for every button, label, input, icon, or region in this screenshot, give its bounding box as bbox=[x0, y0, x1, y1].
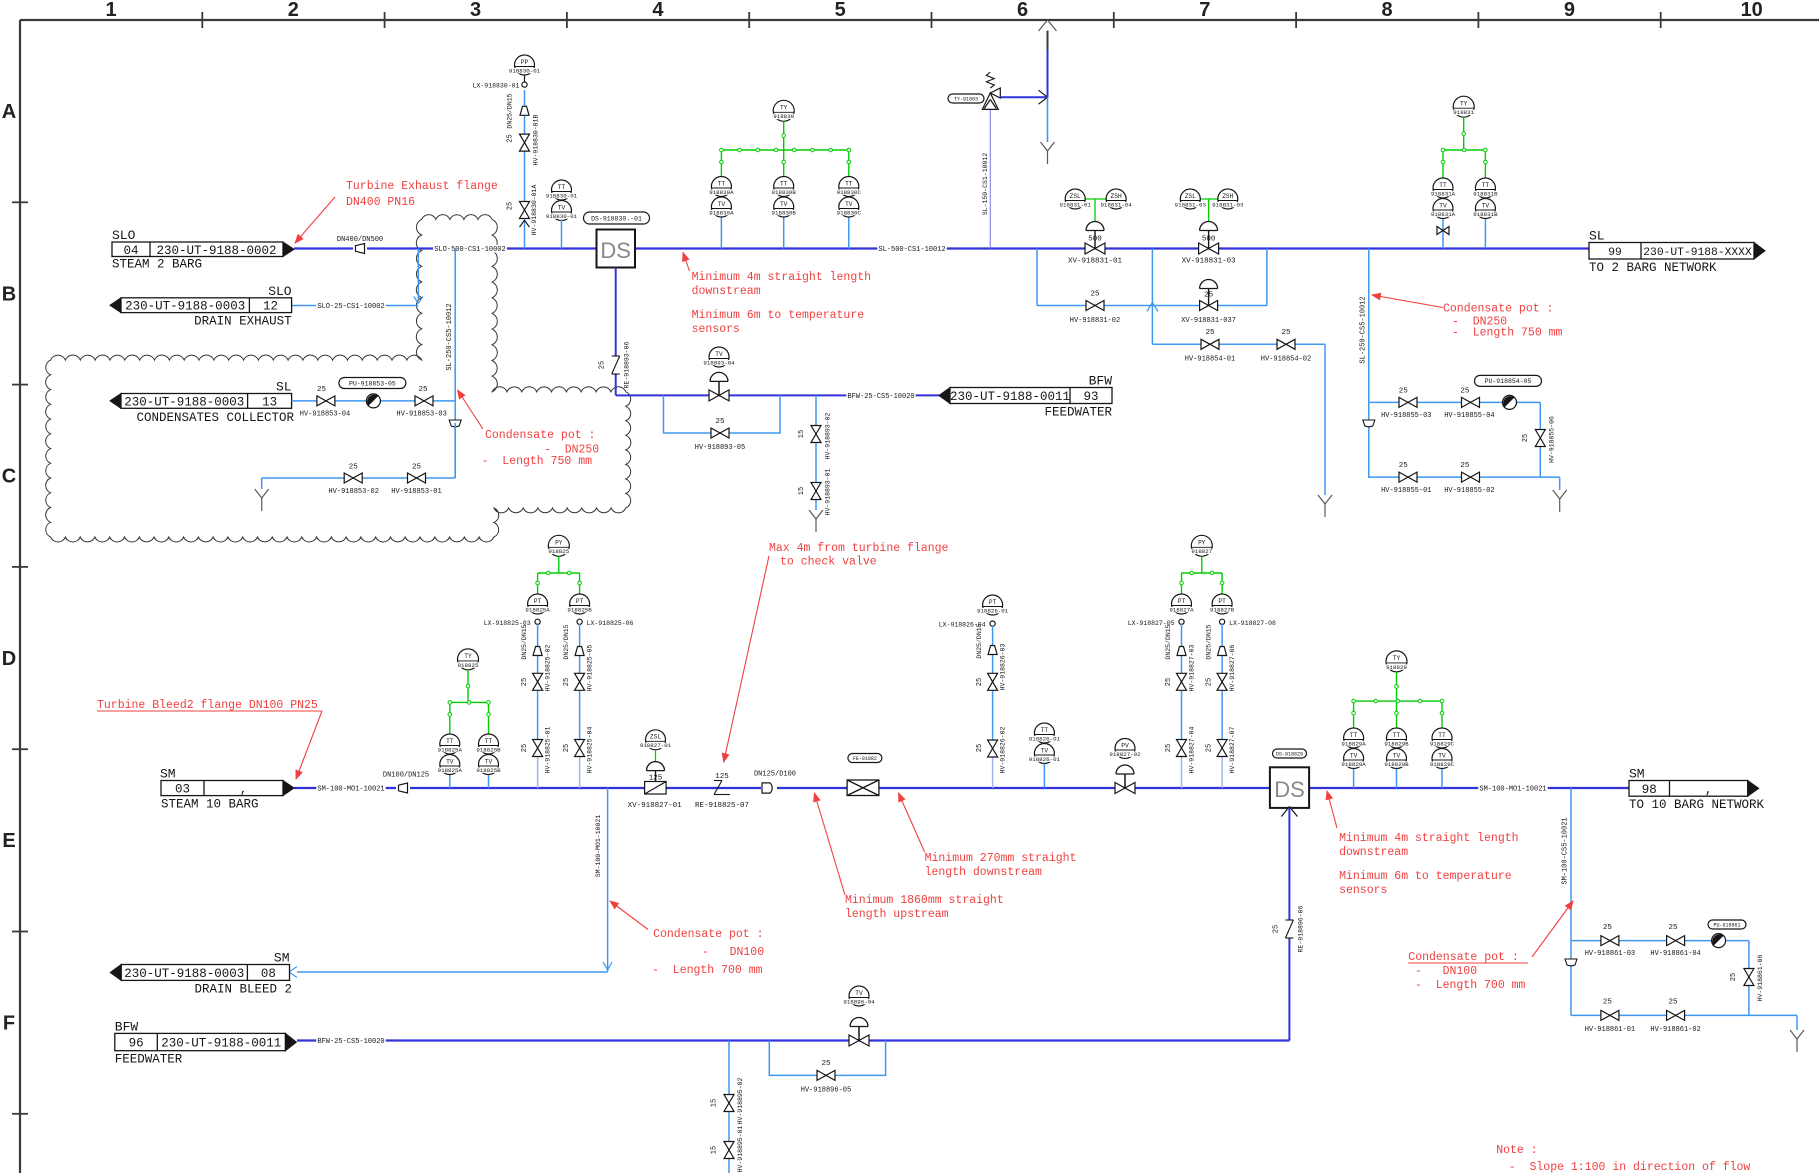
svg-text:918829C: 918829C bbox=[1430, 740, 1455, 747]
svg-text:918825A: 918825A bbox=[438, 767, 463, 774]
svg-text:918825A: 918825A bbox=[525, 606, 550, 613]
svg-text:918830C: 918830C bbox=[837, 189, 862, 196]
svg-text:TV: TV bbox=[1482, 202, 1490, 209]
svg-text:TY-91883: TY-91883 bbox=[954, 96, 978, 102]
svg-text:HV-918826-03: HV-918826-03 bbox=[1000, 643, 1007, 690]
svg-text:Minimum 4m straight length: Minimum 4m straight length bbox=[692, 271, 871, 284]
svg-text:length upstream: length upstream bbox=[845, 908, 949, 921]
svg-text:TV: TV bbox=[1350, 752, 1358, 759]
svg-text:9: 9 bbox=[1564, 0, 1575, 21]
svg-text:98: 98 bbox=[1642, 783, 1657, 797]
svg-text:SM: SM bbox=[1629, 767, 1645, 782]
svg-text:918831A: 918831A bbox=[1431, 211, 1456, 218]
svg-text:PY: PY bbox=[1198, 540, 1206, 547]
svg-text:TV: TV bbox=[1439, 202, 1447, 209]
svg-text:TT: TT bbox=[1438, 732, 1446, 739]
svg-text:sensors: sensors bbox=[1339, 884, 1387, 897]
svg-text:918829C: 918829C bbox=[1430, 761, 1455, 768]
svg-text:TO 2 BARG NETWORK: TO 2 BARG NETWORK bbox=[1589, 261, 1717, 275]
svg-text:25: 25 bbox=[1165, 678, 1173, 686]
svg-text:HV-918896-05: HV-918896-05 bbox=[801, 1086, 851, 1094]
svg-text:TV: TV bbox=[485, 758, 493, 765]
svg-text:TO 10 BARG NETWORK: TO 10 BARG NETWORK bbox=[1629, 798, 1765, 812]
svg-text:TY: TY bbox=[780, 105, 788, 112]
svg-text:TT: TT bbox=[558, 184, 566, 191]
svg-text:downstream: downstream bbox=[692, 285, 761, 298]
svg-text:FE-91882: FE-91882 bbox=[853, 756, 877, 762]
svg-text:918830-01: 918830-01 bbox=[546, 192, 578, 199]
svg-text:25: 25 bbox=[1522, 434, 1530, 442]
svg-text:BFW-25-CS5-10020: BFW-25-CS5-10020 bbox=[317, 1038, 384, 1046]
svg-text:230-UT-9188-0011: 230-UT-9188-0011 bbox=[161, 1037, 281, 1051]
svg-text:Condensate pot :: Condensate pot : bbox=[653, 928, 763, 941]
svg-text:25: 25 bbox=[1206, 678, 1214, 686]
svg-text:BFW: BFW bbox=[1089, 374, 1113, 389]
svg-text:HV-918853-02: HV-918853-02 bbox=[328, 488, 378, 496]
svg-text:DN25/DN15: DN25/DN15 bbox=[563, 624, 570, 659]
svg-text:TT: TT bbox=[1393, 732, 1401, 739]
svg-text:Minimum 6m to temperature: Minimum 6m to temperature bbox=[1339, 870, 1512, 883]
svg-text:25: 25 bbox=[1206, 744, 1214, 752]
svg-text:25: 25 bbox=[317, 386, 327, 394]
svg-text:HV-918855-04: HV-918855-04 bbox=[1444, 412, 1494, 420]
svg-text:B: B bbox=[2, 283, 16, 305]
svg-text:- Length 750 mm: - Length 750 mm bbox=[1452, 327, 1563, 340]
svg-text:230-UT-9188-0002: 230-UT-9188-0002 bbox=[156, 244, 276, 258]
svg-text:Minimum 270mm straight: Minimum 270mm straight bbox=[925, 852, 1077, 865]
svg-text:PT: PT bbox=[576, 598, 584, 605]
svg-text:DS: DS bbox=[600, 238, 631, 263]
svg-text:DRAIN EXHAUST: DRAIN EXHAUST bbox=[194, 314, 292, 328]
svg-text:918825B: 918825B bbox=[476, 767, 501, 774]
svg-text:HV-918893-05: HV-918893-05 bbox=[695, 444, 745, 452]
svg-text:HV-918830-01A: HV-918830-01A bbox=[531, 185, 538, 236]
svg-text:HV-918853-03: HV-918853-03 bbox=[396, 410, 446, 418]
svg-text:25: 25 bbox=[1460, 387, 1470, 395]
svg-text:HV-918830-01B: HV-918830-01B bbox=[533, 115, 540, 166]
svg-text:LX-918827-08: LX-918827-08 bbox=[1229, 620, 1276, 627]
svg-text:SL: SL bbox=[1589, 229, 1605, 244]
svg-text:93: 93 bbox=[1083, 390, 1098, 404]
svg-text:HV-918827-07: HV-918827-07 bbox=[1229, 726, 1236, 773]
svg-text:DS-918829: DS-918829 bbox=[1276, 751, 1303, 757]
svg-text:SL-250-CS5-10012: SL-250-CS5-10012 bbox=[446, 303, 454, 370]
svg-text:918827B: 918827B bbox=[1210, 606, 1235, 613]
svg-text:to check valve: to check valve bbox=[780, 556, 877, 569]
svg-text:25: 25 bbox=[1281, 329, 1291, 337]
svg-text:500: 500 bbox=[1088, 236, 1102, 244]
svg-text:TT: TT bbox=[1350, 732, 1358, 739]
svg-text:ZSH: ZSH bbox=[1222, 193, 1233, 200]
svg-text:918827A: 918827A bbox=[1169, 606, 1194, 613]
svg-text:XV-918831-03: XV-918831-03 bbox=[1182, 258, 1237, 266]
svg-text:918830-01: 918830-01 bbox=[509, 67, 541, 74]
svg-text:HV-918854-01: HV-918854-01 bbox=[1185, 356, 1235, 364]
svg-text:F: F bbox=[3, 1013, 15, 1035]
svg-text:- Slope 1:100 in direction of: - Slope 1:100 in direction of flow bbox=[1509, 1161, 1751, 1173]
svg-text:TV: TV bbox=[1041, 747, 1049, 754]
svg-text:SM: SM bbox=[160, 767, 176, 782]
svg-text:Minimum 1860mm straight: Minimum 1860mm straight bbox=[845, 894, 1004, 907]
svg-text:DN125/D100: DN125/D100 bbox=[754, 770, 796, 778]
svg-text:HV-918855-01: HV-918855-01 bbox=[1381, 487, 1431, 495]
svg-text:918830B: 918830B bbox=[772, 209, 797, 216]
svg-text:D: D bbox=[2, 648, 16, 670]
svg-text:,: , bbox=[1705, 783, 1713, 797]
svg-text:DN25/DN15: DN25/DN15 bbox=[1206, 624, 1213, 659]
svg-text:6: 6 bbox=[1017, 0, 1028, 21]
svg-text:STEAM 2 BARG: STEAM 2 BARG bbox=[112, 258, 202, 272]
svg-text:3: 3 bbox=[470, 0, 481, 21]
svg-text:25: 25 bbox=[1730, 973, 1738, 981]
svg-text:25: 25 bbox=[1460, 462, 1470, 470]
svg-text:PT: PT bbox=[1218, 598, 1226, 605]
svg-text:HV-918855-06: HV-918855-06 bbox=[1549, 416, 1556, 463]
svg-text:25: 25 bbox=[715, 418, 725, 426]
svg-text:Minimum 4m straight length: Minimum 4m straight length bbox=[1339, 832, 1518, 845]
svg-text:- DN100: - DN100 bbox=[1415, 965, 1477, 978]
svg-text:PP: PP bbox=[521, 59, 529, 66]
svg-text:SM: SM bbox=[274, 951, 290, 966]
svg-text:25: 25 bbox=[521, 678, 529, 686]
svg-text:25: 25 bbox=[1165, 744, 1173, 752]
svg-text:sensors: sensors bbox=[692, 323, 740, 336]
svg-text:RE-918893-06: RE-918893-06 bbox=[624, 341, 631, 388]
svg-text:LX-918830-01: LX-918830-01 bbox=[473, 83, 520, 90]
svg-text:XV-918831-01: XV-918831-01 bbox=[1068, 258, 1123, 266]
svg-text:HV-918893-02: HV-918893-02 bbox=[825, 412, 832, 459]
svg-text:TY: TY bbox=[464, 653, 472, 660]
svg-text:918829B: 918829B bbox=[1384, 740, 1409, 747]
svg-text:SM-100-MO1-10021: SM-100-MO1-10021 bbox=[317, 786, 384, 794]
svg-text:TV: TV bbox=[780, 201, 788, 208]
svg-text:230-UT-9188-XXXX: 230-UT-9188-XXXX bbox=[1643, 247, 1752, 259]
svg-text:PY: PY bbox=[555, 540, 563, 547]
svg-text:125: 125 bbox=[715, 773, 729, 781]
svg-text:PV: PV bbox=[1121, 742, 1129, 749]
svg-text:25: 25 bbox=[521, 744, 529, 752]
svg-text:918831B: 918831B bbox=[1473, 211, 1498, 218]
svg-text:HV-918861-01: HV-918861-01 bbox=[1585, 1026, 1635, 1034]
svg-text:TT: TT bbox=[485, 738, 493, 745]
svg-text:TV: TV bbox=[715, 351, 723, 358]
svg-text:25: 25 bbox=[1603, 999, 1613, 1007]
svg-text:DN100/DN125: DN100/DN125 bbox=[383, 772, 429, 780]
svg-text:25: 25 bbox=[563, 678, 571, 686]
svg-text:918829: 918829 bbox=[1386, 664, 1407, 671]
svg-text:TY: TY bbox=[1393, 655, 1401, 662]
svg-text:918831-04: 918831-04 bbox=[1100, 201, 1132, 208]
svg-text:DN25/DN15: DN25/DN15 bbox=[507, 93, 514, 128]
svg-text:918831B: 918831B bbox=[1473, 190, 1498, 197]
svg-text:918827-02: 918827-02 bbox=[1109, 751, 1141, 758]
svg-text:DN25/DN15: DN25/DN15 bbox=[1165, 624, 1172, 659]
svg-text:TT: TT bbox=[780, 180, 788, 187]
svg-text:HV-918825-05: HV-918825-05 bbox=[587, 644, 594, 691]
svg-text:25: 25 bbox=[1603, 924, 1613, 932]
svg-text:XV-918827-01: XV-918827-01 bbox=[628, 802, 683, 810]
svg-text:918830A: 918830A bbox=[709, 189, 734, 196]
svg-text:918896-04: 918896-04 bbox=[843, 998, 875, 1005]
svg-text:25: 25 bbox=[976, 678, 984, 686]
svg-text:PT: PT bbox=[1178, 598, 1186, 605]
svg-text:DN400 PN16: DN400 PN16 bbox=[346, 196, 415, 209]
svg-text:10: 10 bbox=[1741, 0, 1763, 21]
svg-text:25: 25 bbox=[412, 464, 422, 472]
svg-text:918826-01: 918826-01 bbox=[977, 607, 1009, 614]
svg-text:15: 15 bbox=[798, 430, 806, 438]
svg-text:03: 03 bbox=[175, 783, 190, 797]
svg-text:PU-918853-05: PU-918853-05 bbox=[349, 380, 396, 387]
svg-text:HV-918825-01: HV-918825-01 bbox=[545, 726, 552, 773]
svg-text:PU-918854-05: PU-918854-05 bbox=[1485, 378, 1532, 385]
svg-text:SL-150-CS1-10012: SL-150-CS1-10012 bbox=[982, 153, 989, 216]
svg-text:SL: SL bbox=[276, 380, 292, 395]
svg-text:15: 15 bbox=[798, 487, 806, 495]
svg-text:BFW-25-CS5-10020: BFW-25-CS5-10020 bbox=[847, 393, 914, 401]
svg-text:HV-918826-02: HV-918826-02 bbox=[1000, 726, 1007, 773]
svg-text:Turbine Bleed2 flange DN100 PN: Turbine Bleed2 flange DN100 PN25 bbox=[97, 699, 318, 712]
svg-text:DS: DS bbox=[1274, 777, 1305, 802]
svg-text:STEAM 10 BARG: STEAM 10 BARG bbox=[161, 798, 259, 812]
svg-text:HV-918827-06: HV-918827-06 bbox=[1229, 644, 1236, 691]
svg-text:SLO-500-CS1-10002: SLO-500-CS1-10002 bbox=[434, 246, 505, 254]
svg-text:SM-100-MO1-10021: SM-100-MO1-10021 bbox=[595, 815, 602, 878]
svg-text:TT: TT bbox=[718, 180, 726, 187]
svg-text:8: 8 bbox=[1382, 0, 1393, 21]
svg-text:25: 25 bbox=[1205, 329, 1215, 337]
svg-text:- DN100: - DN100 bbox=[702, 946, 764, 959]
svg-text:Minimum 6m to temperature: Minimum 6m to temperature bbox=[692, 309, 865, 322]
svg-text:500: 500 bbox=[1202, 236, 1216, 244]
svg-text:918825: 918825 bbox=[458, 662, 479, 669]
svg-text:5: 5 bbox=[835, 0, 846, 21]
svg-text:918827: 918827 bbox=[1191, 548, 1212, 555]
svg-text:15: 15 bbox=[711, 1146, 719, 1154]
svg-text:HV-918855-03: HV-918855-03 bbox=[1381, 412, 1431, 420]
svg-text:918831-01: 918831-01 bbox=[1060, 201, 1092, 208]
svg-text:12: 12 bbox=[263, 300, 278, 314]
svg-text:HV-918861-02: HV-918861-02 bbox=[1650, 1026, 1700, 1034]
svg-text:- Length 750 mm: - Length 750 mm bbox=[482, 455, 593, 468]
svg-text:7: 7 bbox=[1199, 0, 1210, 21]
svg-text:RE-918825-07: RE-918825-07 bbox=[695, 802, 749, 810]
svg-text:918893-04: 918893-04 bbox=[703, 359, 735, 366]
svg-text:918830C: 918830C bbox=[837, 209, 862, 216]
svg-text:04: 04 bbox=[123, 244, 138, 258]
svg-text:DN25/DN15: DN25/DN15 bbox=[521, 624, 528, 659]
svg-text:2: 2 bbox=[288, 0, 299, 21]
svg-text:918825B: 918825B bbox=[476, 746, 501, 753]
svg-text:99: 99 bbox=[1608, 247, 1622, 259]
svg-text:HV-918861-03: HV-918861-03 bbox=[1585, 950, 1635, 958]
svg-text:918825A: 918825A bbox=[438, 746, 463, 753]
svg-text:SM-100-CS5-10021: SM-100-CS5-10021 bbox=[1562, 817, 1570, 884]
svg-text:25: 25 bbox=[418, 386, 428, 394]
svg-text:230-UT-9188-0003: 230-UT-9188-0003 bbox=[124, 395, 244, 409]
svg-text:PU-918861: PU-918861 bbox=[1713, 922, 1740, 928]
svg-text:25: 25 bbox=[1399, 387, 1409, 395]
svg-text:918829A: 918829A bbox=[1341, 740, 1366, 747]
svg-text:25: 25 bbox=[1668, 924, 1678, 932]
svg-text:DN25/DN15: DN25/DN15 bbox=[976, 623, 983, 658]
svg-text:918830A: 918830A bbox=[709, 209, 734, 216]
svg-text:TV: TV bbox=[855, 990, 863, 997]
svg-text:25: 25 bbox=[1204, 292, 1214, 300]
svg-text:XV-918831-037: XV-918831-037 bbox=[1181, 317, 1236, 325]
svg-text:25: 25 bbox=[563, 744, 571, 752]
svg-text:TT: TT bbox=[1041, 727, 1049, 734]
svg-text:SLO: SLO bbox=[268, 284, 292, 299]
svg-text:downstream: downstream bbox=[1339, 846, 1408, 859]
svg-text:SLO-25-CS1-10002: SLO-25-CS1-10002 bbox=[317, 303, 384, 311]
svg-text:918830: 918830 bbox=[773, 113, 794, 120]
svg-text:25: 25 bbox=[349, 464, 359, 472]
svg-text:918825: 918825 bbox=[548, 548, 569, 555]
svg-text:4: 4 bbox=[652, 0, 664, 21]
svg-text:PT: PT bbox=[534, 598, 542, 605]
svg-text:ZSH: ZSH bbox=[1111, 193, 1122, 200]
svg-text:A: A bbox=[2, 101, 16, 123]
svg-text:FEEDWATER: FEEDWATER bbox=[115, 1053, 183, 1067]
svg-text:SL-250-CS5-10012: SL-250-CS5-10012 bbox=[1360, 296, 1368, 363]
svg-text:TV: TV bbox=[718, 201, 726, 208]
svg-text:1: 1 bbox=[105, 0, 116, 21]
svg-text:HV-918895-02: HV-918895-02 bbox=[737, 1077, 744, 1124]
svg-text:25: 25 bbox=[1090, 291, 1100, 299]
svg-text:918825B: 918825B bbox=[567, 606, 592, 613]
svg-text:- Length 700 mm: - Length 700 mm bbox=[1415, 979, 1526, 992]
svg-text:length downstream: length downstream bbox=[925, 866, 1042, 879]
svg-text:918831: 918831 bbox=[1453, 109, 1474, 116]
svg-text:ZSL: ZSL bbox=[1070, 193, 1081, 200]
svg-text:15: 15 bbox=[711, 1099, 719, 1107]
svg-text:25: 25 bbox=[976, 744, 984, 752]
svg-text:96: 96 bbox=[129, 1037, 144, 1051]
svg-text:ZSL: ZSL bbox=[1185, 193, 1196, 200]
svg-text:HV-918854-02: HV-918854-02 bbox=[1261, 356, 1311, 364]
svg-text:25: 25 bbox=[821, 1060, 831, 1068]
svg-text:TT: TT bbox=[446, 738, 454, 745]
svg-text:DRAIN BLEED 2: DRAIN BLEED 2 bbox=[194, 982, 292, 996]
svg-text:Note :: Note : bbox=[1496, 1144, 1537, 1157]
svg-text:230-UT-9188-0003: 230-UT-9188-0003 bbox=[125, 300, 245, 314]
svg-text:918831A: 918831A bbox=[1431, 190, 1456, 197]
svg-text:HV-918861-06: HV-918861-06 bbox=[1757, 954, 1764, 1001]
svg-text:08: 08 bbox=[261, 967, 276, 981]
svg-text:DS-918830.-01: DS-918830.-01 bbox=[591, 215, 642, 222]
svg-text:918831-03: 918831-03 bbox=[1175, 201, 1207, 208]
svg-text:E: E bbox=[2, 830, 15, 852]
svg-text:918826-01: 918826-01 bbox=[1029, 735, 1061, 742]
svg-text:Condensate pot :: Condensate pot : bbox=[485, 429, 595, 442]
svg-text:918829A: 918829A bbox=[1341, 761, 1366, 768]
svg-text:25: 25 bbox=[1399, 462, 1409, 470]
svg-text:HV-918827-03: HV-918827-03 bbox=[1189, 644, 1196, 691]
svg-text:TV: TV bbox=[1438, 752, 1446, 759]
svg-text:SLO: SLO bbox=[112, 228, 136, 243]
svg-text:TT: TT bbox=[1439, 182, 1447, 189]
svg-text:918831-03: 918831-03 bbox=[1212, 201, 1244, 208]
svg-text:TV: TV bbox=[446, 758, 454, 765]
svg-text:918827-01: 918827-01 bbox=[640, 742, 672, 749]
svg-text:Condensate pot :: Condensate pot : bbox=[1443, 303, 1553, 316]
svg-text:918829B: 918829B bbox=[1384, 761, 1409, 768]
svg-text:13: 13 bbox=[262, 395, 277, 409]
svg-text:PT: PT bbox=[989, 599, 997, 606]
svg-text:918830B: 918830B bbox=[772, 189, 797, 196]
svg-text:HV-918853-01: HV-918853-01 bbox=[391, 488, 441, 496]
svg-text:TV: TV bbox=[558, 204, 566, 211]
svg-text:TV: TV bbox=[845, 201, 853, 208]
svg-text:HV-918861-04: HV-918861-04 bbox=[1650, 950, 1700, 958]
svg-text:RE-918896-06: RE-918896-06 bbox=[1297, 905, 1304, 952]
svg-text:TT: TT bbox=[1482, 182, 1490, 189]
svg-text:230-UT-9188-0003: 230-UT-9188-0003 bbox=[124, 967, 244, 981]
svg-text:Turbine Exhaust flange: Turbine Exhaust flange bbox=[346, 180, 498, 193]
svg-text:HV-918831-02: HV-918831-02 bbox=[1070, 317, 1120, 325]
svg-text:,: , bbox=[240, 783, 248, 797]
svg-text:CONDENSATES COLLECTOR: CONDENSATES COLLECTOR bbox=[136, 411, 294, 425]
svg-text:918826-01: 918826-01 bbox=[1029, 756, 1061, 763]
svg-text:SM-100-MO1-10021: SM-100-MO1-10021 bbox=[1479, 786, 1546, 794]
svg-text:ZSL: ZSL bbox=[650, 734, 661, 741]
svg-text:HV-918853-04: HV-918853-04 bbox=[300, 410, 350, 418]
svg-text:918830-01: 918830-01 bbox=[546, 213, 578, 220]
svg-text:HV-918825-02: HV-918825-02 bbox=[545, 644, 552, 691]
svg-text:HV-918825-04: HV-918825-04 bbox=[587, 726, 594, 773]
svg-text:HV-918827-04: HV-918827-04 bbox=[1189, 726, 1196, 773]
svg-text:BFW: BFW bbox=[115, 1019, 139, 1034]
svg-text:25: 25 bbox=[507, 202, 515, 210]
svg-text:25: 25 bbox=[1668, 999, 1678, 1007]
svg-text:C: C bbox=[2, 466, 16, 488]
svg-text:25: 25 bbox=[1272, 925, 1280, 933]
svg-text:HV-918895-01: HV-918895-01 bbox=[737, 1125, 744, 1172]
svg-text:HV-918893-01: HV-918893-01 bbox=[825, 468, 832, 515]
svg-text:Condensate pot :: Condensate pot : bbox=[1408, 951, 1518, 964]
svg-text:- Length 700 mm: - Length 700 mm bbox=[652, 964, 763, 977]
svg-text:TV: TV bbox=[1393, 752, 1401, 759]
svg-text:TT: TT bbox=[845, 180, 853, 187]
svg-text:25: 25 bbox=[507, 134, 515, 142]
svg-text:FEEDWATER: FEEDWATER bbox=[1044, 405, 1112, 419]
svg-text:230-UT-9188-0011: 230-UT-9188-0011 bbox=[950, 390, 1070, 404]
svg-text:HV-918855-02: HV-918855-02 bbox=[1444, 487, 1494, 495]
svg-text:TY: TY bbox=[1460, 101, 1468, 108]
svg-text:SL-500-CS1-10012: SL-500-CS1-10012 bbox=[878, 246, 945, 254]
svg-text:25: 25 bbox=[599, 361, 607, 369]
svg-text:LX-918825-06: LX-918825-06 bbox=[587, 620, 634, 627]
svg-text:Max 4m from turbine flange: Max 4m from turbine flange bbox=[769, 542, 949, 555]
